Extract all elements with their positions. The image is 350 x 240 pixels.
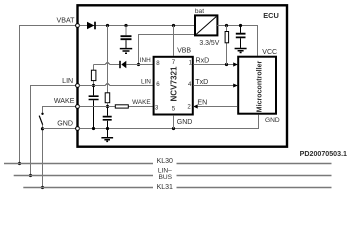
regulator U2 (battery 3.3/5V converter box) [195, 15, 217, 35]
node RxD pull-up junction dot [225, 63, 228, 66]
svg-text:GND: GND [177, 119, 193, 126]
wire WAKE (inside ECU) [79, 106, 152, 108]
svg-text:KL31: KL31 [157, 184, 173, 191]
svg-text:EN: EN [197, 98, 207, 106]
node LIN drop to LIN-BUS (junction dot) [29, 174, 32, 177]
wire GND rail (inside ECU) [79, 115, 258, 129]
svg-text:5: 5 [172, 106, 176, 113]
node LIN terminal (open circle on ECU edge) [76, 84, 80, 88]
wire VBAT rail (inside ECU to regulator) [79, 25, 194, 27]
wire hop (INH over VBAT vertical) [105, 62, 110, 64]
svg-text:TxD: TxD [195, 78, 208, 86]
node GND drop to KL31 (junction dot) [41, 186, 44, 189]
wire switch to GND rail and drop to KL31 [42, 125, 44, 188]
wire VCC rail (regulator output to microcontroller) [217, 26, 257, 56]
svg-text:WAKE: WAKE [132, 99, 151, 106]
wire KL30 bus line [4, 163, 332, 165]
svg-text:GND: GND [265, 117, 280, 124]
resistor R3 (WAKE series) [115, 105, 128, 108]
node VBAT drop to KL30 (junction dot) [18, 162, 21, 165]
node EN arrow into pin 2 [193, 104, 198, 108]
wire LIN-BUS line [14, 175, 332, 177]
capacitor C3 (WAKE to GND) [103, 107, 112, 129]
svg-text:VCC: VCC [262, 49, 277, 56]
wire GND entry (left horizontal) [43, 128, 76, 130]
resistor R4 (RxD pull-up to VCC) [226, 26, 228, 65]
ground (ECU ground symbol on rail) [101, 129, 113, 142]
svg-text:INH: INH [140, 57, 151, 64]
wire VBAT vertical (rail down to wake pull-up) [107, 26, 109, 93]
svg-text:ECU: ECU [263, 11, 279, 20]
resistor R2 (WAKE pull-up to VBAT) [105, 93, 110, 103]
svg-text:PD20070503.1: PD20070503.1 [300, 150, 347, 158]
wire LIN (inside ECU to pin 6) [79, 85, 152, 87]
node TxD arrow into microcontroller [233, 84, 238, 88]
svg-text:RxD: RxD [196, 57, 210, 65]
wire VBB feed (VBAT rail down to pin 7) [173, 26, 175, 56]
wire KL31 bus line [23, 187, 331, 189]
ground (below C1) [120, 49, 132, 54]
wire INH to regulator enable [139, 35, 195, 65]
wire LIN entry (left, horizontal + vertical drop to LIN-BUS) [31, 85, 76, 176]
transistor U3 (microcontroller box) [238, 57, 276, 114]
op-amp U1 (transceiver NCV7321 box) [154, 57, 193, 115]
node VBAT terminal (open circle on ECU edge) [76, 24, 80, 28]
node R1/LIN junction dot [92, 84, 95, 87]
capacitor C1 (VBAT filter) [121, 26, 132, 49]
svg-text:VBB: VBB [177, 47, 191, 54]
svg-text:Microcontroller: Microcontroller [256, 60, 264, 112]
svg-text:LIN: LIN [62, 77, 73, 85]
wire hop (LIN over VBAT vertical) [105, 83, 110, 85]
node VCC rail junction dots [225, 24, 228, 27]
capacitor C2 (LIN to GND) [89, 86, 99, 129]
node WAKE terminal (open circle on ECU edge) [76, 105, 80, 109]
wire INH (pin 8 leftwards) [94, 64, 153, 66]
wire WAKE entry (left horizontal, corner down to switch) [43, 106, 76, 113]
wire TxD (pin 4 to microcontroller) [193, 85, 237, 87]
wire EN (microcontroller to pin 2) [193, 106, 237, 108]
capacitor C4 (VCC decoupling) [236, 26, 246, 48]
svg-text:LIN: LIN [141, 78, 151, 85]
svg-text:VBAT: VBAT [56, 17, 75, 25]
svg-text:WAKE: WAKE [54, 97, 75, 105]
svg-text:bat: bat [195, 8, 204, 15]
switch S1 (wake switch, open blade) [41, 113, 43, 115]
node switch/GND junction dot [41, 127, 44, 130]
node GND rail junction dots [92, 127, 95, 130]
node RxD arrow into microcontroller [233, 62, 238, 66]
diode D2 (INH to LIN master pull-up) [121, 61, 126, 68]
diode D1 (reverse battery protection on VBAT rail) [87, 22, 94, 30]
wire pin 5 GND [173, 116, 175, 129]
svg-text:KL30: KL30 [157, 158, 173, 165]
svg-text:GND: GND [57, 119, 73, 127]
node VBAT rail junction dots [106, 24, 109, 27]
ECU box [78, 5, 288, 146]
svg-text:NCV7321: NCV7321 [169, 66, 178, 102]
svg-text:BUS: BUS [159, 174, 173, 181]
node GND terminal (open circle on ECU edge) [76, 127, 80, 131]
resistor R1 (LIN master pull-up) [93, 65, 95, 86]
node WAKE junction dot [106, 105, 109, 108]
wire VBAT entry (left, horizontal + vertical drop to KL30) [20, 25, 76, 164]
ground (below C4) [235, 49, 247, 53]
wire RxD (pin 1 to microcontroller) [193, 64, 237, 66]
node INH junction dot [137, 63, 140, 66]
svg-text:3.3/5V: 3.3/5V [199, 40, 219, 47]
